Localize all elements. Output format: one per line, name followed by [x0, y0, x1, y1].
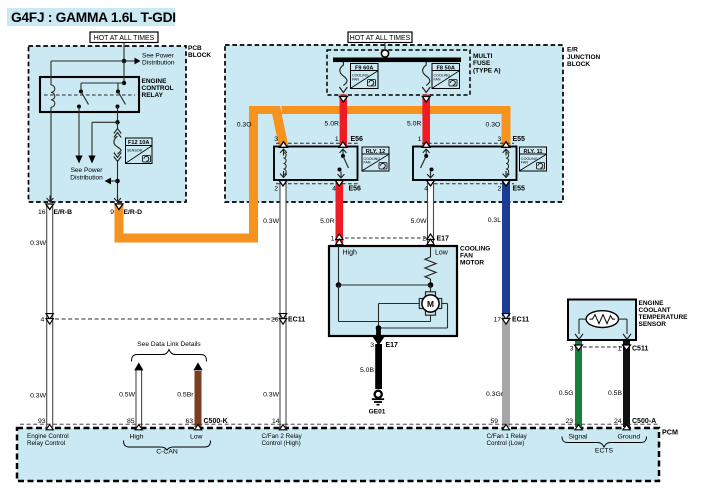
svg-text:1: 1 [618, 346, 622, 353]
pin 2 E17 chevron [427, 234, 434, 245]
ECTS ellipse thermistor [586, 311, 618, 328]
wire orange drop to pin 3 E55 [502, 106, 511, 147]
svg-text:5.0B: 5.0B [360, 367, 374, 374]
wire feed drop to contacts [123, 61, 125, 83]
svg-text:24: 24 [614, 418, 622, 425]
wire red 5.0R pin 4 E56 to pin 1 E17 [336, 180, 344, 246]
ENGINE CONTROL RELAY label [142, 78, 174, 99]
ECTS brace [562, 437, 647, 448]
PCM block area [17, 428, 659, 481]
relay dashed midline [44, 94, 135, 96]
pin 63 label [185, 418, 227, 425]
relay switch RLY12 [338, 149, 349, 178]
svg-text:High: High [343, 250, 358, 257]
cooling fan motor box [329, 246, 457, 336]
pin 3 C511 chevron [575, 345, 583, 351]
pin 1 E55 chevron [422, 142, 430, 148]
switch 2 ECR [116, 90, 126, 109]
svg-text:0.5G: 0.5G [559, 390, 574, 397]
node contact feed [122, 81, 126, 85]
svg-text:Distribution: Distribution [70, 175, 103, 182]
pin 9 label [110, 209, 142, 216]
multifuse bus bar [333, 58, 461, 63]
pin 23 chevron [575, 425, 582, 430]
C/Fan 1 Relay Control label [487, 433, 528, 447]
svg-text:CONTROL: CONTROL [142, 85, 174, 92]
svg-text:C500-K: C500-K [204, 418, 228, 425]
arrow out fuse F8 [422, 87, 430, 102]
svg-text:RELAY: RELAY [142, 92, 164, 99]
svg-text:5.0W: 5.0W [411, 218, 427, 225]
pin 3 E17 arrow [372, 336, 385, 346]
svg-text:0.3O: 0.3O [486, 122, 501, 129]
motor low feed line [430, 246, 432, 257]
pin 1 C511 chevron [623, 345, 631, 351]
pin 26 label [271, 317, 305, 324]
ECTS wire right [619, 319, 628, 334]
wire coil left vertical [50, 61, 52, 203]
pin 24 chevron [623, 425, 630, 430]
pin 85 chevron [135, 425, 142, 430]
ECTS sensor box [568, 300, 636, 341]
svg-text:2: 2 [422, 236, 426, 243]
svg-text:85: 85 [127, 418, 135, 425]
relay E56 top dashed row [276, 142, 358, 144]
wire black 5.0B motor to ground [375, 344, 382, 389]
svg-text:E17: E17 [437, 236, 450, 243]
svg-text:MULTI: MULTI [473, 53, 493, 60]
svg-text:Low: Low [435, 250, 449, 257]
connector chevrons above F12 [114, 129, 121, 138]
svg-text:23: 23 [565, 418, 573, 425]
svg-text:High: High [130, 434, 144, 441]
svg-text:EC11: EC11 [288, 317, 305, 324]
svg-text:FAN: FAN [364, 161, 371, 165]
svg-text:COOLING: COOLING [460, 245, 490, 252]
connector chevrons below F12 [114, 153, 121, 162]
svg-text:BLOCK: BLOCK [567, 61, 590, 68]
relay RLY. 11 label box [520, 147, 547, 171]
wire switch1 output [78, 107, 80, 157]
svg-text:ECTS: ECTS [595, 448, 614, 455]
svg-text:GE01: GE01 [369, 409, 386, 416]
svg-text:E17: E17 [386, 342, 399, 349]
wire below fuse F12 [117, 160, 119, 203]
svg-text:E/R-B: E/R-B [54, 209, 73, 216]
svg-text:3: 3 [370, 342, 374, 349]
fuse F8 element [423, 62, 430, 86]
C-CAN brace [124, 441, 211, 451]
svg-text:26: 26 [271, 317, 279, 324]
wire white 0.5W CAN high [136, 369, 142, 427]
wire motor high loop [339, 285, 431, 322]
wire node to motor top [430, 285, 432, 293]
pin labels C511 [570, 346, 649, 353]
ECTS wire left [579, 319, 586, 334]
relay E55 bottom dashed row [428, 183, 514, 185]
HOT AT ALL TIMES label 1 [90, 32, 158, 43]
fuse F12 element [114, 136, 121, 154]
wire contact bus [81, 82, 124, 84]
svg-text:FAN: FAN [352, 78, 359, 82]
svg-text:93: 93 [38, 418, 46, 425]
svg-text:FUSE: FUSE [473, 60, 491, 67]
wire orange top horizontal left [249, 106, 272, 114]
node motor low junction [428, 282, 434, 288]
relay coil ECR [51, 85, 55, 107]
engine control relay box [40, 77, 139, 112]
E/R JUNCTION BLOCK label [567, 47, 601, 68]
COOLING FAN MOTOR label [460, 245, 490, 266]
svg-text:ENGINE: ENGINE [142, 78, 168, 85]
svg-text:Control (High): Control (High) [262, 440, 301, 447]
svg-text:F8 50A: F8 50A [437, 65, 455, 71]
wire HOT2 feed [384, 43, 386, 51]
wire white 0.3W E/R-B to PCM pin 93 [47, 204, 53, 427]
svg-text:0.5W: 0.5W [119, 392, 135, 399]
svg-text:0.5Br: 0.5Br [177, 392, 194, 399]
fuse F12 10A label box [126, 138, 153, 164]
svg-text:PCM: PCM [662, 428, 678, 437]
svg-text:See Power: See Power [71, 167, 104, 174]
svg-text:BLOCK: BLOCK [188, 52, 211, 59]
wire see-power horizontal [51, 60, 124, 62]
pin 17 label [493, 317, 529, 324]
pin labels E56 top [274, 136, 363, 143]
svg-text:2: 2 [274, 186, 278, 193]
pin 24 label [614, 418, 656, 425]
svg-text:F12 10A: F12 10A [128, 140, 149, 146]
See Power Distribution text bottom [70, 167, 103, 182]
pin 3 E56 chevron [280, 142, 288, 148]
motor M circle [422, 295, 439, 312]
wire red fuse F9 to pin 1 E56 [340, 95, 347, 148]
wire green 0.5G ECTS to PCM pin 23 [575, 340, 582, 427]
pin labels E17 [331, 236, 449, 243]
pin 16 label [38, 209, 72, 216]
arrow ECTS pin 3 [575, 334, 583, 340]
svg-text:G4FJ : GAMMA 1.6L T-GDI: G4FJ : GAMMA 1.6L T-GDI [11, 10, 176, 25]
arrow see power distribution top [124, 58, 141, 65]
svg-text:5.0R: 5.0R [320, 218, 334, 225]
dashed C511 row [583, 346, 622, 348]
pin 4 E56 chevron [335, 181, 343, 187]
node left-arrow junction [115, 179, 120, 184]
svg-text:E56: E56 [351, 136, 364, 143]
wire blue 0.3L pin 2 E55 to EC11 [502, 180, 510, 316]
wire switch2 drop [117, 83, 119, 91]
pin 93 chevron [46, 425, 53, 430]
wire resistor to node [430, 279, 432, 285]
C/Fan 2 Relay Control label [262, 433, 303, 447]
svg-text:3: 3 [570, 346, 574, 353]
svg-text:E55: E55 [513, 136, 526, 143]
wire HOT1 feed into PCB [123, 43, 125, 62]
wire switch1 drop [80, 83, 82, 91]
svg-text:C500-A: C500-A [632, 418, 656, 425]
arrow see power 2 [88, 156, 95, 164]
arrow out fuse F9 [339, 87, 347, 102]
relay E56 bottom dashed row [276, 183, 358, 185]
svg-text:JUNCTION: JUNCTION [567, 54, 601, 61]
svg-text:ENGINE: ENGINE [639, 300, 665, 307]
relay RLY11 box [413, 147, 517, 181]
svg-text:Distribution: Distribution [142, 60, 175, 67]
svg-text:SENSOR: SENSOR [127, 149, 143, 153]
arrow up CAN high [134, 362, 143, 370]
svg-text:FAN: FAN [460, 252, 473, 259]
wire fuse F12 feed [117, 122, 119, 129]
pin 9 E/R-D marker [114, 196, 123, 210]
svg-text:PCB: PCB [188, 45, 202, 52]
svg-text:HOT AT ALL TIMES: HOT AT ALL TIMES [94, 35, 155, 42]
pin 2 E55 chevron [502, 181, 510, 187]
pin 3 E55 chevron [502, 142, 510, 148]
svg-text:4: 4 [424, 186, 428, 193]
wire motor right tab [379, 304, 448, 329]
title G4FJ : GAMMA 1.6L T-GDI [7, 8, 176, 26]
wire orange riser vertical [249, 106, 258, 243]
pin 17 EC11 chevron [502, 314, 509, 325]
pin 1 E56 chevron [339, 142, 347, 148]
Engine Control Relay Control label [27, 433, 69, 447]
arrow left see power [105, 178, 118, 185]
svg-text:Low: Low [190, 434, 203, 441]
wire brown 0.5Br CAN low [195, 371, 202, 427]
svg-text:See Power: See Power [142, 53, 175, 60]
pin labels E55 top [418, 136, 525, 143]
pin 26 EC11 chevron [279, 314, 286, 325]
pin 4 chevron [46, 314, 53, 325]
bus bar terminal circle [381, 50, 388, 57]
svg-text:E55: E55 [513, 186, 526, 193]
svg-text:E56: E56 [349, 186, 362, 193]
node branch to arrow2 [115, 120, 119, 124]
svg-text:0.3W: 0.3W [30, 240, 46, 247]
svg-text:0.3O: 0.3O [237, 122, 252, 129]
svg-text:17: 17 [493, 317, 501, 324]
switch 1 ECR [77, 90, 89, 109]
node motor high junction [336, 282, 342, 288]
relay RLY12 box [274, 147, 358, 181]
svg-text:0.3W: 0.3W [30, 393, 46, 400]
svg-text:C511: C511 [632, 346, 648, 353]
fuse F9 element [340, 62, 347, 86]
multifuse dashed box [327, 50, 470, 95]
dashed E17 row [339, 237, 427, 239]
svg-text:0.3W: 0.3W [263, 392, 279, 399]
See Power Distribution text top [142, 53, 175, 67]
wire motor output stub [376, 328, 381, 336]
svg-text:5.0R: 5.0R [325, 121, 339, 128]
pin 14 chevron [279, 425, 286, 430]
wire switch2 output [117, 107, 119, 123]
svg-text:EC11: EC11 [512, 317, 529, 324]
HOT AT ALL TIMES label 2 [348, 32, 412, 43]
svg-text:14: 14 [272, 418, 280, 425]
wire white 0.3W pin 2 E56 to PCM pin 14 [280, 180, 286, 427]
svg-text:0.3W: 0.3W [263, 218, 279, 225]
svg-text:E/R-D: E/R-D [124, 209, 143, 216]
svg-text:SENSOR: SENSOR [639, 321, 667, 328]
data link brace [132, 350, 207, 362]
pin labels E56 bottom [274, 186, 361, 193]
svg-text:59: 59 [490, 418, 498, 425]
dashed EC11 row left [55, 318, 280, 320]
svg-text:9: 9 [110, 209, 114, 216]
svg-text:See Data Link Details: See Data Link Details [137, 341, 201, 348]
svg-text:5.0R: 5.0R [407, 121, 421, 128]
svg-text:E/R: E/R [567, 47, 578, 54]
PCB block area [29, 46, 187, 202]
wire orange top horizontal right [282, 106, 511, 114]
pin 2 E56 chevron [279, 181, 287, 187]
fuse F9 60A label box [351, 64, 379, 89]
svg-text:1: 1 [335, 136, 339, 143]
svg-text:0.3L: 0.3L [488, 217, 501, 224]
relay coil RLY11 [503, 149, 510, 177]
motor M tabs [419, 292, 441, 315]
pin labels E55 bottom [424, 186, 525, 193]
wire orange diagonal to pin 3 E56 [271, 106, 289, 147]
motor resistor [425, 257, 436, 279]
svg-text:0.3Gr: 0.3Gr [486, 391, 504, 398]
svg-text:63: 63 [185, 418, 193, 425]
arrow up CAN low [193, 362, 202, 370]
wire gray 0.3Gr EC11 to PCM pin 59 [502, 316, 510, 427]
arrow ECTS pin 1 [623, 334, 631, 340]
svg-text:(TYPE A): (TYPE A) [473, 67, 501, 74]
svg-text:RLY. 11: RLY. 11 [523, 149, 542, 155]
wire node to node horizontal [339, 284, 431, 286]
pin 1 E17 chevron [336, 234, 343, 245]
svg-text:MOTOR: MOTOR [460, 259, 484, 266]
svg-text:HOT AT ALL TIMES: HOT AT ALL TIMES [350, 35, 411, 42]
fuse F8 50A label box [432, 64, 460, 89]
svg-text:0.5B: 0.5B [608, 390, 622, 397]
svg-text:FAN: FAN [434, 78, 441, 82]
wire red fuse F8 to pin 1 E55 [422, 95, 430, 148]
relay RLY. 12 label box [362, 147, 389, 171]
motor high feed line [338, 246, 340, 285]
svg-text:FAN: FAN [521, 161, 528, 165]
ENGINE COOLANT TEMPERATURE SENSOR label [639, 300, 689, 328]
svg-text:F9 60A: F9 60A [355, 65, 373, 71]
svg-text:COOLANT: COOLANT [639, 307, 671, 314]
ground GE01 [369, 391, 386, 416]
arrow see power 1 [75, 156, 82, 164]
svg-text:Ground: Ground [618, 434, 641, 441]
svg-text:16: 16 [38, 209, 46, 216]
svg-text:4: 4 [41, 317, 45, 324]
pin 63 chevron [194, 425, 201, 430]
wire orange lower horizontal [115, 234, 259, 243]
svg-text:3: 3 [498, 136, 502, 143]
svg-text:Relay Control: Relay Control [27, 440, 65, 447]
svg-text:Signal: Signal [569, 434, 588, 441]
svg-text:C-CAN: C-CAN [156, 449, 178, 456]
pin 3 E17 label [370, 342, 398, 349]
pin 16 E/R-B marker [46, 196, 54, 210]
relay coil RLY12 [280, 149, 287, 177]
MULTI FUSE (TYPE A) label [473, 53, 501, 74]
svg-text:2: 2 [498, 186, 502, 193]
relay E55 top dashed row [422, 142, 514, 144]
svg-text:M: M [427, 299, 434, 309]
svg-text:TEMPERATURE: TEMPERATURE [639, 314, 689, 321]
pin 4 E55 chevron [427, 181, 435, 187]
wire branch drop [91, 122, 93, 156]
wire black 0.5B ECTS to PCM pin 24 [623, 340, 630, 427]
node top feed junction [122, 59, 127, 64]
svg-text:4: 4 [332, 186, 336, 193]
wire white 5.0W pin 4 E55 to pin 2 E17 [428, 180, 434, 246]
wire branch horizontal [92, 121, 118, 123]
E/R junction block area [225, 45, 563, 202]
svg-text:RLY. 12: RLY. 12 [366, 149, 385, 155]
svg-text:3: 3 [274, 136, 278, 143]
pin 59 chevron [502, 425, 509, 430]
svg-text:Control (Low): Control (Low) [487, 440, 525, 447]
node motor output [376, 325, 382, 331]
relay switch RLY11 [421, 149, 434, 178]
wire motor left tab [379, 304, 420, 329]
svg-text:1: 1 [418, 136, 422, 143]
svg-text:1: 1 [331, 236, 335, 243]
dashed C500 connector row [20, 423, 658, 425]
wire orange from E/R-D vertical [115, 203, 124, 243]
